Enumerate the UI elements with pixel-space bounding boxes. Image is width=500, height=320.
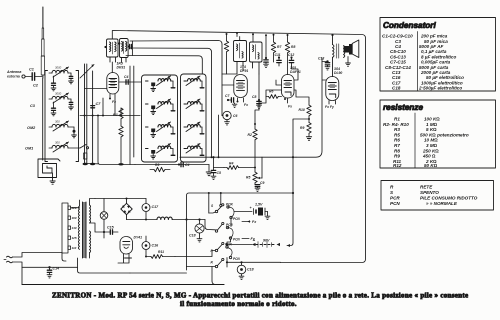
- coil boxB row1: [184, 76, 204, 88]
- IF can T3: [250, 42, 263, 74]
- battery 90V: [226, 239, 280, 248]
- capacitor C14: [47, 266, 52, 278]
- coil boxA row1: [146, 76, 175, 92]
- svg-text:Fx: Fx: [244, 103, 248, 107]
- svg-text:300: 300: [55, 120, 60, 124]
- switch S1: [215, 204, 224, 213]
- dial lamp: [100, 199, 108, 233]
- svg-text:RETE: RETE: [420, 185, 433, 190]
- svg-text:+: +: [250, 206, 253, 210]
- wire can T2 top to bus: [236, 32, 240, 41]
- wire S2 feed: [205, 220, 215, 230]
- coil L1 row: [49, 67, 73, 84]
- wire transformer primary top: [80, 199, 96, 207]
- svg-text:450 Ω: 450 Ω: [422, 154, 436, 159]
- capacitor row2 to ground: [51, 102, 56, 116]
- table legend box: [381, 181, 494, 211]
- capacitor C6 electrolytic: [222, 111, 231, 125]
- left coil box rails: [43, 71, 79, 162]
- svg-text:C12: C12: [288, 53, 294, 57]
- tube V4 3S4: [326, 77, 339, 105]
- wire grid V4 from C12: [292, 66, 299, 80]
- tube V3 1S5: [282, 75, 295, 104]
- capacitor row1 to ground: [51, 76, 56, 91]
- svg-text:90V: 90V: [263, 239, 270, 243]
- svg-text:160: 160: [72, 216, 77, 220]
- svg-text:OM1: OM1: [25, 147, 33, 151]
- svg-text:Antenna: Antenna: [6, 70, 21, 74]
- table condensatori box: [380, 18, 496, 92]
- svg-text:PCR: PCR: [226, 223, 233, 227]
- svg-text:C2: C2: [33, 84, 39, 88]
- wire tube V1 right plate: [119, 81, 141, 83]
- power transformer T5: [78, 202, 90, 258]
- battery 1.5V: [250, 203, 270, 220]
- ground frame antenna: [50, 181, 55, 184]
- middle coil box B: [181, 74, 207, 162]
- wire mains to transformer: [13, 253, 63, 285]
- svg-text:500 KΩ potenziometro: 500 KΩ potenziometro: [420, 132, 469, 137]
- wire mid bottom: [135, 164, 209, 166]
- wire bus4: [126, 56, 202, 75]
- wire selector to transformer: [62, 208, 80, 253]
- svg-text:R1: R1: [394, 117, 400, 122]
- resistor R8: [285, 34, 289, 75]
- resistor R1: [119, 108, 123, 165]
- wire R9 R10 tap: [293, 119, 309, 120]
- wire rect filament row: [130, 272, 187, 274]
- svg-text:R4: R4: [229, 162, 233, 166]
- resistor R6: [266, 95, 282, 99]
- table legend rows: [390, 185, 478, 207]
- capacitor beside can2: [127, 41, 132, 56]
- tuning gang rails: [85, 64, 93, 163]
- svg-text:S: S: [390, 190, 394, 195]
- svg-text:Fx Fy: Fx Fy: [325, 105, 335, 109]
- resistor R2: [253, 123, 257, 172]
- svg-text:ZENITRON - Mod. RP 54 serie N,: ZENITRON - Mod. RP 54 serie N, S, MG - A…: [52, 292, 468, 300]
- svg-text:PCN: PCN: [233, 217, 240, 221]
- wire V3 grid left: [259, 80, 282, 103]
- svg-text:C13: C13: [318, 57, 324, 61]
- svg-text:R3: R3: [155, 163, 159, 167]
- coil boxB row3: [184, 122, 204, 134]
- potentiometer R5: [253, 172, 262, 185]
- wire tube V1 left grid: [85, 88, 107, 90]
- middle coil box A: [142, 75, 178, 162]
- svg-text:3000: 3000: [55, 92, 62, 96]
- gang bottom pads: [83, 153, 124, 166]
- svg-text:Condensatori: Condensatori: [383, 21, 436, 30]
- resistor R10: [307, 101, 311, 123]
- svg-text:R: R: [390, 185, 394, 190]
- wire V2 grid left: [222, 74, 234, 85]
- wire tube1 cathode drop: [102, 98, 104, 116]
- wire V4 grid riser: [296, 58, 326, 157]
- capacitor C13: [322, 60, 330, 70]
- svg-text:1 MΩ: 1 MΩ: [426, 122, 438, 127]
- filter choke: [127, 217, 206, 220]
- svg-text:OM2: OM2: [27, 126, 36, 130]
- tuning gang arrow: [80, 65, 94, 79]
- svg-text:DL90: DL90: [334, 71, 342, 75]
- svg-text:R: R: [211, 261, 214, 265]
- wire bus2 from can2: [130, 41, 222, 75]
- svg-text:C15: C15: [107, 226, 115, 230]
- resistor R3: [150, 167, 170, 171]
- wire switch link S2-S3: [227, 239, 231, 246]
- wire V2 to C6: [221, 85, 224, 116]
- svg-text:DK91: DK91: [117, 65, 126, 69]
- label V1 1R5 DK91: [117, 62, 126, 70]
- wire left rail boxes down: [130, 66, 134, 165]
- svg-text:C5: C5: [217, 171, 221, 175]
- ground mid boxes: [206, 165, 212, 176]
- svg-text:C18: C18: [392, 86, 401, 91]
- switch S2: [215, 222, 233, 239]
- output transformer T4: [331, 34, 344, 77]
- svg-text:3000: 3000: [55, 66, 62, 70]
- coil boxB row4: [184, 144, 204, 156]
- wire plate feed vertical: [287, 120, 293, 246]
- svg-text:il funzionamento normale o rid: il funzionamento normale o ridotto.: [180, 300, 297, 308]
- label Fy arrow: [242, 237, 256, 241]
- svg-text:5 KΩ: 5 KΩ: [426, 127, 437, 132]
- label V2 1T4 DF91: [240, 65, 248, 73]
- capacitor C15: [103, 230, 118, 234]
- svg-text:R11: R11: [158, 250, 164, 254]
- svg-text:50 KΩ: 50 KΩ: [424, 163, 438, 168]
- svg-text:10 MΩ: 10 MΩ: [424, 138, 438, 143]
- svg-text:» » NORMALE: » » NORMALE: [426, 201, 458, 206]
- svg-text:esterna: esterna: [7, 75, 20, 79]
- svg-text:Fx: Fx: [112, 100, 116, 104]
- coil L2 row: [49, 93, 73, 110]
- tube V2 1T4: [234, 75, 248, 103]
- svg-text:DY41: DY41: [134, 236, 143, 240]
- svg-text:C18: C18: [247, 268, 254, 272]
- coil boxB row2: [184, 99, 204, 111]
- svg-text:C3: C3: [30, 104, 36, 108]
- mains plug symbol: [4, 256, 13, 263]
- svg-text:125: 125: [72, 236, 77, 240]
- capacitor C7 gang: [91, 106, 95, 108]
- osc can 2: [120, 39, 129, 63]
- capacitor C4b: [178, 162, 183, 166]
- coil value labels left box: [55, 66, 62, 145]
- rectifier tube V5: [120, 237, 133, 259]
- svg-text:R5: R5: [394, 132, 400, 137]
- coil boxA row4: [146, 144, 175, 160]
- svg-text:+: +: [253, 239, 256, 243]
- svg-text:R7: R7: [277, 45, 282, 49]
- capacitor C12: [289, 56, 293, 66]
- resistor R12v top: [224, 33, 228, 74]
- svg-text:140: 140: [72, 226, 77, 230]
- capacitor C11: [277, 56, 281, 66]
- svg-text:R2: R2: [248, 133, 252, 137]
- coil L4 row with switch: [49, 142, 89, 152]
- coil boxA row2: [146, 99, 175, 115]
- svg-text:PCN: PCN: [233, 238, 240, 242]
- svg-text:Fx: Fx: [252, 220, 257, 224]
- label Fx arrow: [242, 220, 257, 224]
- wire can T3 top to bus: [252, 33, 254, 42]
- svg-text:1,5V: 1,5V: [255, 203, 263, 207]
- svg-text:C7: C7: [225, 94, 230, 98]
- wire AVC line y157: [180, 115, 296, 158]
- capacitor C10: [264, 34, 269, 67]
- svg-text:PCN: PCN: [233, 257, 240, 261]
- wire S1 to battery: [234, 211, 252, 213]
- capacitor C16 electrolytic: [142, 236, 150, 257]
- svg-text:R2- R4- R10: R2- R4- R10: [383, 122, 409, 127]
- IF can T2: [234, 41, 247, 75]
- speaker: [344, 40, 359, 66]
- wire bus3: [130, 48, 212, 157]
- wire R2 top: [255, 110, 259, 124]
- svg-text:PCR: PCR: [390, 196, 400, 201]
- label V3 1S5 DAF91: [290, 66, 301, 74]
- svg-text:C1: C1: [29, 68, 34, 72]
- svg-text:C4: C4: [185, 163, 189, 167]
- capacitor C18a electrolytic: [195, 218, 204, 242]
- svg-text:R8: R8: [394, 148, 400, 153]
- wire rect top: [95, 198, 146, 200]
- svg-text:3 MΩ: 3 MΩ: [426, 143, 438, 148]
- wire transformer secondary bottoms: [90, 223, 130, 263]
- capacitor C18 electrolytic: [237, 261, 246, 279]
- svg-text:R6: R6: [394, 138, 400, 143]
- wire switch link S1-S2: [230, 219, 232, 227]
- svg-text:C6: C6: [233, 114, 237, 118]
- table condensatori rows: [382, 34, 464, 91]
- antenna esterna label: [6, 70, 21, 79]
- label V4 3S4 DL90: [334, 67, 342, 75]
- svg-text:SPENTO: SPENTO: [420, 190, 439, 195]
- svg-text:R8: R8: [291, 45, 295, 49]
- svg-text:C9: C9: [260, 181, 264, 185]
- capacitor C8: [257, 99, 262, 109]
- coil L3 row: [49, 121, 76, 138]
- switch S1 contacts: [227, 206, 234, 219]
- wire grid bus y115: [80, 115, 140, 117]
- svg-text:DAF91: DAF91: [290, 70, 301, 74]
- wire top bus B+: [112, 31, 365, 263]
- resistor R9: [306, 123, 311, 141]
- svg-text:R9: R9: [300, 126, 304, 130]
- svg-text:PCN: PCN: [390, 201, 400, 206]
- svg-text:R10: R10: [299, 108, 305, 112]
- svg-text:300: 300: [55, 141, 60, 145]
- wire gang bottom bus: [85, 163, 99, 165]
- bridge rectifier: [121, 198, 132, 220]
- svg-text:R7: R7: [394, 143, 400, 148]
- voltage selector panel: [62, 203, 71, 253]
- coil boxA row3: [146, 122, 175, 138]
- svg-text:R12: R12: [393, 163, 402, 168]
- svg-text:Fx: Fx: [288, 105, 292, 109]
- capacitor C9: [255, 185, 260, 192]
- table resistenze rows: [383, 117, 469, 169]
- svg-text:C7: C7: [96, 102, 102, 106]
- wire switch junction to right rail: [226, 258, 281, 268]
- svg-text:2·500µF elettrolitico: 2·500µF elettrolitico: [418, 86, 462, 91]
- resistor R7: [271, 34, 275, 62]
- wire bottom left bus: [22, 253, 224, 285]
- svg-text:C17: C17: [152, 205, 160, 209]
- svg-text:C18: C18: [189, 234, 196, 238]
- wire IF grid row: [222, 73, 237, 75]
- wire S1 pole feed: [208, 192, 222, 213]
- frame antenna spiral: [38, 159, 60, 181]
- capacitor C5: [211, 156, 224, 179]
- capacitor C1: [25, 73, 42, 80]
- wire plate V2 riser: [258, 74, 260, 110]
- svg-text:S: S: [211, 204, 214, 208]
- capacitor on V1 plate wire: [126, 80, 128, 84]
- antenna terminal: [22, 75, 25, 78]
- wire R10 top to V3 plate: [294, 90, 309, 101]
- svg-text:R1: R1: [113, 113, 118, 117]
- svg-text:PILE CONSUMO RIDOTTO: PILE CONSUMO RIDOTTO: [420, 196, 478, 201]
- switch S3: [215, 242, 232, 258]
- loop wire top: [186, 192, 295, 270]
- svg-text:R3: R3: [394, 127, 400, 132]
- svg-text:110: 110: [72, 246, 77, 250]
- svg-text:R5: R5: [246, 176, 250, 180]
- svg-text:resistenze: resistenze: [383, 103, 423, 112]
- capacitor C7 det: [227, 98, 237, 108]
- labels voltage taps: [71, 206, 77, 250]
- svg-text:DF91: DF91: [240, 69, 248, 73]
- resistor R11: [145, 255, 175, 259]
- wire S2 row: [175, 251, 215, 257]
- svg-text:250 KΩ: 250 KΩ: [422, 148, 439, 153]
- wire corner to R1 bottom: [98, 116, 135, 165]
- svg-text:C16: C16: [152, 244, 160, 248]
- svg-text:100 KΩ: 100 KΩ: [424, 117, 440, 122]
- svg-text:C8: C8: [252, 95, 256, 99]
- svg-text:C11: C11: [275, 53, 281, 57]
- osc can 1: [104, 39, 120, 62]
- wire S3 row bottom: [187, 258, 225, 284]
- table resistenze box: [380, 100, 496, 168]
- resistor R4: [224, 166, 256, 170]
- svg-text:C4: C4: [124, 75, 128, 79]
- antenna rod: [41, 7, 44, 78]
- tube V1 1R5: [107, 62, 119, 116]
- wire pot wiper riser: [261, 157, 263, 178]
- svg-text:PCR: PCR: [225, 243, 232, 247]
- svg-text:R9: R9: [394, 154, 400, 159]
- capacitor C17 electrolytic: [142, 199, 150, 220]
